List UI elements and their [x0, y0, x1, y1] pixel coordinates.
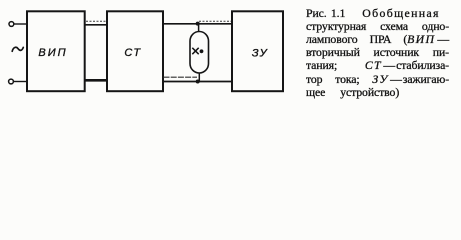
lamp top lead — [198, 24, 200, 32]
wire ST to ZU top — [163, 23, 232, 25]
lamp electrode X — [192, 48, 198, 54]
junction dot bottom — [196, 80, 200, 84]
terminal bottom-left — [9, 79, 14, 84]
svg-text:СТ: СТ — [124, 47, 141, 59]
block VIP box — [27, 11, 85, 91]
wire bottom terminal to VIP — [14, 81, 27, 83]
wire VIP to ST bottom — [85, 79, 107, 82]
junction dot top — [196, 22, 200, 26]
AC tilde symbol — [12, 47, 23, 51]
block ST box — [107, 11, 163, 91]
svg-text:ВИП: ВИП — [38, 47, 67, 59]
wire VIP to ST top — [85, 24, 107, 26]
ghost line above ST-lamp bottom wire — [164, 76, 198, 78]
ghost line above ST-ZU top wire — [199, 20, 231, 22]
svg-text:ЗУ: ЗУ — [252, 48, 268, 60]
lamp EL stadium body — [190, 32, 209, 74]
wire top terminal to VIP — [14, 23, 27, 25]
lamp electrode dot — [200, 49, 204, 53]
wire ST to ZU bottom — [163, 81, 232, 83]
block ZU box — [232, 11, 283, 91]
terminal top-left — [9, 22, 14, 27]
lamp bottom lead — [198, 73, 200, 82]
ghost line above VIP-ST top wire — [86, 20, 107, 22]
